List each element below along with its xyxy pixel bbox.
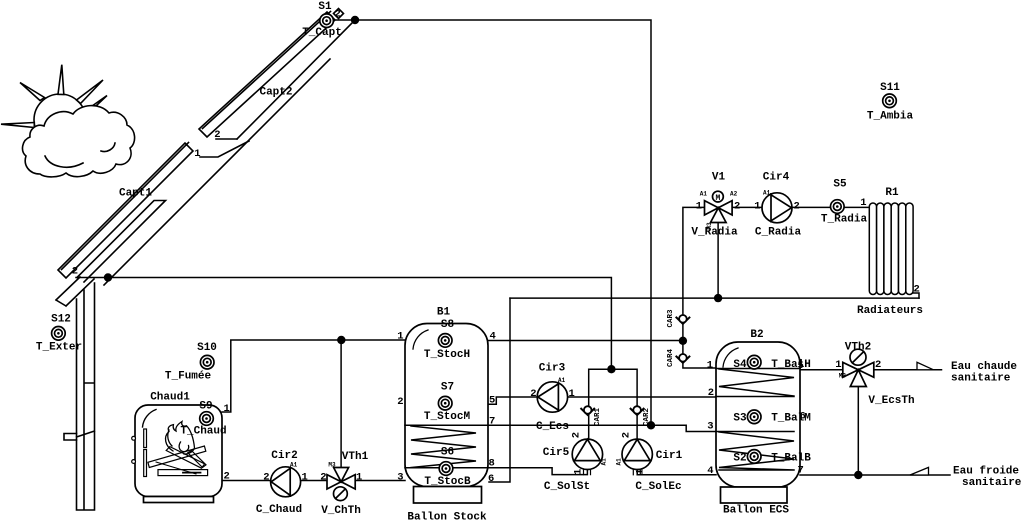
svg-text:V1: V1 xyxy=(712,172,726,184)
svg-text:1: 1 xyxy=(860,197,866,209)
svg-text:T_Capt: T_Capt xyxy=(302,27,342,39)
junction dot eau froide VTh2 xyxy=(854,471,862,479)
collector Capt1 under-strip xyxy=(77,201,166,283)
svg-text:Cir5: Cir5 xyxy=(543,447,570,459)
svg-text:S6: S6 xyxy=(441,447,454,459)
wire manifold CAR1/CAR2 xyxy=(589,369,637,439)
svg-text:2: 2 xyxy=(263,472,269,484)
boiler Chaud1 xyxy=(132,405,222,503)
svg-text:Eau chaude: Eau chaude xyxy=(951,361,1017,373)
svg-text:7: 7 xyxy=(489,416,495,428)
eau froide triangle xyxy=(910,467,929,475)
svg-text:2: 2 xyxy=(397,396,403,408)
boiler logs xyxy=(148,446,206,474)
sensor S7 (T_StocM) xyxy=(438,396,452,410)
sensor S4 (T_BalH) xyxy=(747,355,761,369)
svg-text:Chaud1: Chaud1 xyxy=(150,392,190,404)
svg-text:V_EcsTh: V_EcsTh xyxy=(868,395,914,407)
sensor S9 (T_Chaud) xyxy=(200,412,214,426)
roof interconnect tabs between collectors xyxy=(200,139,249,157)
wire B2 pin5 to VTh2 xyxy=(800,369,843,371)
svg-text:sanitaire: sanitaire xyxy=(951,372,1011,384)
SECTION: house and sun xyxy=(1,9,354,511)
coil B2 lower (solar HX) xyxy=(716,432,794,471)
coil B1 (solar HX) xyxy=(405,425,488,467)
cloud xyxy=(23,106,135,177)
wire boiler loop Chaud1 to B1 pin3 xyxy=(222,480,405,482)
svg-text:S8: S8 xyxy=(441,319,455,331)
svg-text:2: 2 xyxy=(621,432,633,438)
svg-text:Cir1: Cir1 xyxy=(656,450,683,462)
svg-text:A1: A1 xyxy=(700,191,708,198)
svg-text:Radiateurs: Radiateurs xyxy=(857,305,923,317)
svg-text:1: 1 xyxy=(224,403,230,415)
svg-text:1: 1 xyxy=(635,469,647,475)
svg-text:2: 2 xyxy=(734,201,740,213)
svg-text:5: 5 xyxy=(798,360,804,372)
sensor S1 (T_Capt) xyxy=(320,14,334,28)
svg-text:Cir4: Cir4 xyxy=(763,172,790,184)
svg-text:S11: S11 xyxy=(880,82,900,94)
svg-text:VTh2: VTh2 xyxy=(845,341,871,353)
svg-text:T_Ambia: T_Ambia xyxy=(867,111,914,123)
valve V1 (V_Radia) motorized 3-way xyxy=(705,191,733,222)
svg-text:VTh1: VTh1 xyxy=(342,451,369,463)
svg-text:T_Radia: T_Radia xyxy=(821,214,868,226)
svg-text:1: 1 xyxy=(194,148,200,160)
wire radiator R1 pin2 jog xyxy=(913,293,920,298)
svg-text:6: 6 xyxy=(488,473,494,485)
junction dot CAR3/CAR4 xyxy=(679,337,687,345)
tank B2 Ballon ECS xyxy=(716,342,800,503)
wire solar hot: collector top to riser xyxy=(333,20,651,425)
collector Capt1 xyxy=(58,143,193,279)
svg-text:C_Radia: C_Radia xyxy=(755,227,802,239)
valve VTh1 (V_ChTh) xyxy=(327,468,355,501)
svg-text:S5: S5 xyxy=(833,179,847,191)
svg-text:T_StocM: T_StocM xyxy=(424,411,471,423)
svg-text:Cir2: Cir2 xyxy=(271,450,297,462)
SECTION: wires xyxy=(76,16,950,482)
svg-text:CAR3: CAR3 xyxy=(667,309,675,328)
svg-text:M3: M3 xyxy=(839,373,847,380)
svg-text:T_StocH: T_StocH xyxy=(424,349,470,361)
check valve CAR3 xyxy=(676,315,689,324)
coil B2 upper (ECS HX) xyxy=(716,369,800,397)
svg-text:S4: S4 xyxy=(733,359,747,371)
roof gable line lower segment xyxy=(104,140,249,285)
check valve CAR4 xyxy=(676,354,689,363)
svg-text:A1: A1 xyxy=(616,458,623,466)
boiler flames xyxy=(166,422,195,455)
svg-text:2: 2 xyxy=(214,129,220,141)
roof gable line upper segment xyxy=(237,21,354,139)
svg-text:2: 2 xyxy=(530,388,536,400)
wire solar cold: collector bottom along y=277.5 down to manifold xyxy=(76,278,611,370)
pump Cir4 (C_Radia) xyxy=(762,193,792,223)
junction dot radiator return V1 xyxy=(714,294,722,302)
sensor S6 (T_StocB) xyxy=(439,462,453,476)
boiler grate xyxy=(158,470,208,476)
svg-text:1: 1 xyxy=(754,201,760,213)
wire B1 pin5 to Cir3 to B2 pin2 xyxy=(489,397,716,404)
svg-text:sanitaire: sanitaire xyxy=(962,477,1022,489)
svg-text:1: 1 xyxy=(573,469,585,475)
junction dot manifold xyxy=(607,365,615,373)
wire radiator return xyxy=(510,297,919,299)
svg-text:Cir3: Cir3 xyxy=(539,363,566,375)
svg-text:2: 2 xyxy=(708,387,714,399)
valve VTh2 (V_EcsTh) thermostatic xyxy=(843,349,874,386)
wire Cir4 to S5 to R1 pin1 xyxy=(792,206,870,208)
svg-text:A1: A1 xyxy=(558,377,566,384)
svg-text:B2: B2 xyxy=(750,329,763,341)
svg-text:2: 2 xyxy=(224,471,230,483)
svg-text:C_SolSt: C_SolSt xyxy=(544,481,590,493)
svg-text:T_BalB: T_BalB xyxy=(771,453,811,465)
sensor S11 (T_Ambia) xyxy=(883,94,897,108)
junction dot collector bottom xyxy=(104,273,112,281)
svg-text:1: 1 xyxy=(356,472,362,484)
svg-text:A1: A1 xyxy=(290,462,298,469)
svg-text:T_Chaud: T_Chaud xyxy=(180,426,226,438)
sensor S2 (T_BalB) xyxy=(747,450,761,464)
svg-text:C_SolEc: C_SolEc xyxy=(635,481,681,493)
svg-text:CAR2: CAR2 xyxy=(643,408,651,427)
svg-text:V_Radia: V_Radia xyxy=(691,227,738,239)
svg-text:R1: R1 xyxy=(885,187,899,199)
svg-text:8: 8 xyxy=(489,458,495,470)
eau chaude triangle xyxy=(917,362,934,370)
svg-text:2: 2 xyxy=(335,9,341,21)
svg-text:3: 3 xyxy=(397,472,403,484)
sensor S8 (T_StocH) xyxy=(438,334,452,348)
wire VTh2 M3 riser xyxy=(857,386,859,475)
wire B1 pin6 to radiator return xyxy=(489,298,510,482)
roof eave xyxy=(56,277,94,306)
svg-text:2: 2 xyxy=(875,359,881,371)
check valve CAR1 xyxy=(581,406,594,415)
svg-text:S3: S3 xyxy=(733,413,747,425)
svg-text:1: 1 xyxy=(707,360,713,372)
svg-text:1: 1 xyxy=(696,201,702,213)
sensor S12 (T_Exter) xyxy=(52,327,66,341)
wire B1 pin8 to Cir5 outlet xyxy=(489,468,587,475)
svg-text:2: 2 xyxy=(914,284,920,296)
wire V1 pin3 riser xyxy=(717,216,719,298)
svg-text:B1: B1 xyxy=(437,307,451,319)
wall xyxy=(77,283,95,510)
svg-text:1: 1 xyxy=(302,472,308,484)
svg-text:Ballon ECS: Ballon ECS xyxy=(723,505,789,517)
svg-text:1: 1 xyxy=(569,388,575,400)
svg-text:S2: S2 xyxy=(733,453,746,465)
svg-text:CAR4: CAR4 xyxy=(667,349,675,368)
svg-text:4: 4 xyxy=(490,331,496,343)
collector top pin tab xyxy=(334,9,344,19)
check valve CAR2 xyxy=(631,406,644,415)
pump Cir2 (C_Chaud) xyxy=(271,467,301,497)
junction dot C_Ecs riser xyxy=(647,421,655,429)
wire VTh1 riser xyxy=(340,340,342,468)
svg-text:T_Exter: T_Exter xyxy=(36,342,82,354)
svg-text:2: 2 xyxy=(320,472,326,484)
svg-text:S1: S1 xyxy=(318,1,332,13)
svg-text:Capt1: Capt1 xyxy=(119,188,152,200)
sensor S10 (T_Fumee) xyxy=(200,355,214,369)
wire eau froide xyxy=(800,474,950,476)
sun xyxy=(1,65,107,146)
collector Capt2 under-line xyxy=(250,59,330,139)
svg-text:V_ChTh: V_ChTh xyxy=(321,505,361,517)
pump Cir5 (C_SolSt) xyxy=(572,439,602,475)
svg-text:M3: M3 xyxy=(706,222,713,230)
svg-text:1: 1 xyxy=(397,331,403,343)
pump Cir1 (C_SolEc) xyxy=(622,439,652,475)
tank B1 Ballon Stock xyxy=(405,324,488,504)
svg-text:5: 5 xyxy=(489,395,495,407)
svg-text:S12: S12 xyxy=(51,314,71,326)
sensor S3 (T_BalM) xyxy=(747,410,761,424)
svg-text:S9: S9 xyxy=(199,401,212,413)
svg-text:CAR1: CAR1 xyxy=(594,408,602,427)
svg-text:3: 3 xyxy=(707,421,713,433)
svg-text:T_BalH: T_BalH xyxy=(771,359,811,371)
wire B1 pin1 to boiler Chaud1 xyxy=(222,340,405,412)
svg-text:4: 4 xyxy=(707,465,713,477)
svg-text:M: M xyxy=(715,194,720,203)
svg-text:1: 1 xyxy=(835,359,841,371)
svg-text:7: 7 xyxy=(798,465,804,477)
svg-text:Ballon Stock: Ballon Stock xyxy=(407,511,487,521)
svg-text:C_Ecs: C_Ecs xyxy=(536,421,569,433)
svg-text:Capt2: Capt2 xyxy=(259,87,292,99)
svg-text:2: 2 xyxy=(794,201,800,213)
collector Capt2 xyxy=(199,12,335,138)
pump Cir3 (C_Ecs) xyxy=(537,382,567,412)
radiator R1 xyxy=(869,203,913,295)
svg-text:A1: A1 xyxy=(600,458,607,466)
junction dot S1 xyxy=(351,16,359,24)
svg-text:2: 2 xyxy=(72,266,78,278)
svg-text:6: 6 xyxy=(800,411,806,423)
svg-text:Eau froide: Eau froide xyxy=(953,465,1019,477)
svg-text:T_Fumée: T_Fumée xyxy=(165,371,212,383)
svg-text:A1: A1 xyxy=(763,190,771,197)
wire Cir1 outlet to B2 pin4 xyxy=(637,470,716,475)
svg-text:S7: S7 xyxy=(441,382,454,394)
svg-text:A2: A2 xyxy=(730,191,738,198)
wire C_Ecs B1 pin7 to B2 pin3 xyxy=(488,425,716,431)
svg-text:2: 2 xyxy=(571,432,583,438)
wire B1 pin4 to CAR junction xyxy=(488,340,683,342)
wire VTh2 pin2 eau chaude xyxy=(874,369,942,371)
svg-text:T_StocB: T_StocB xyxy=(424,476,471,488)
svg-text:C_Chaud: C_Chaud xyxy=(256,504,302,516)
junction dot VTh1 riser xyxy=(337,336,345,344)
svg-text:M3: M3 xyxy=(328,462,336,469)
wall tab xyxy=(64,434,77,441)
svg-text:S10: S10 xyxy=(197,342,217,354)
wire V1 pin2 to Cir4 xyxy=(732,206,762,208)
sensor S5 (T_Radia) xyxy=(831,200,845,214)
wire V1 pin1 to CAR3/CAR4 column xyxy=(683,207,716,368)
